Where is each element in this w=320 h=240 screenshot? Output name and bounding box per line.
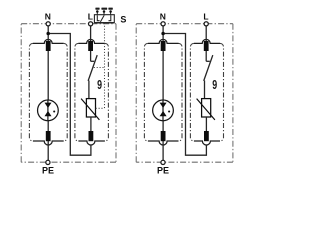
wire L down into varistor branch: [90, 26, 92, 61]
node junction dot on N: [46, 32, 50, 36]
signalling terminal pin 2 stub: [103, 12, 105, 15]
thermal disconnector blade right module: [204, 55, 213, 81]
varistor branch sub-box left side: [75, 43, 79, 141]
varistor branch separation line bottom with plug bump: [78, 141, 105, 145]
terminal PE right module: [161, 160, 165, 164]
signalling contact NO leg: [109, 15, 111, 21]
varistor branch sub-box right side: [105, 43, 109, 141]
linkage dotted vertical signalling to thermal element: [104, 23, 106, 108]
signalling terminal pin 1 dot: [96, 10, 99, 13]
spark gap gas-filled indicator dot: [53, 110, 55, 112]
outer enclosure box right module: top edge: [136, 23, 233, 25]
outer enclosure box left module: top edge: [21, 23, 116, 25]
wire junction N to varistor bottom link right module: [164, 34, 207, 156]
svg-text:N: N: [45, 12, 51, 22]
wire varistor to bottom contact right module: [205, 117, 207, 132]
signalling terminal pin 2 dot: [103, 10, 106, 13]
svg-text:N: N: [160, 12, 166, 22]
svg-text:9: 9: [212, 78, 217, 92]
spark gap F1 circle: [38, 100, 59, 121]
plug-in contact blade top of varistor branch: [88, 41, 93, 51]
spark gap upper electrode triangle right module: [160, 103, 167, 108]
pin label NC: [95, 8, 99, 10]
svg-text:L: L: [203, 12, 208, 22]
signalling terminal pin 3 dot: [109, 10, 112, 13]
signalling terminal pin 1 stub: [96, 12, 98, 15]
plug-in contact blade bottom of spark gap branch: [46, 131, 51, 141]
spark-gap branch sub-box right side right module: [179, 43, 183, 141]
outer enclosure box right module: bottom edge: [136, 161, 233, 163]
spark gap wire through circle right module: [162, 100, 164, 121]
fixed contact tick of thermal disconnector: [91, 60, 95, 62]
spark-gap branch sub-box left side (dash-dot verticals): [29, 43, 33, 141]
wire varistor to bottom contact: [90, 117, 92, 132]
spark-gap separation line top right module: [148, 39, 179, 43]
linkage dotted horizontal to blade: [94, 67, 105, 69]
svg-text:S: S: [120, 15, 126, 25]
varistor MOV1 diagonal stroke: [81, 99, 99, 120]
spark-gap branch sub-box right side: [64, 43, 67, 141]
wire N down through spark gap to PE right module: [162, 26, 164, 160]
pin label COM: [101, 8, 107, 10]
thermal disconnect temperature label theta right: [212, 78, 217, 92]
spark gap upper electrode triangle: [45, 103, 52, 108]
wire N down through spark gap to PE: [47, 26, 49, 160]
svg-text:PE: PE: [42, 166, 54, 176]
linkage dotted horizontal to varistor: [96, 107, 105, 109]
spark gap wire through circle: [47, 100, 49, 121]
varistor separation line top right module: [194, 39, 220, 43]
plug-in contact bottom varistor right module: [204, 131, 209, 141]
signalling box bottom heavier edge: [94, 22, 114, 24]
svg-text:PE: PE: [157, 166, 169, 176]
varistor branch separation line top with plug bump: [78, 39, 105, 43]
terminal N left module: [46, 22, 50, 26]
svg-text:9: 9: [97, 78, 102, 92]
spark gap indicator dot right module: [168, 110, 170, 112]
spark gap lower electrode triangle: [45, 111, 52, 116]
plug-in contact bottom spark gap right module: [161, 131, 166, 141]
varistor MOV2 diagonal stroke: [197, 99, 215, 120]
outer enclosure box left module: left edge: [20, 24, 22, 163]
signalling terminal pin 3 stub: [110, 12, 112, 15]
signalling contact NC leg: [97, 15, 99, 21]
varistor branch sub-box right side right module: [220, 43, 224, 141]
terminal L left module: [89, 22, 93, 26]
outer enclosure box right module: left edge: [135, 24, 137, 163]
terminal L right module: [204, 22, 208, 26]
remote signalling contact box S: [94, 15, 114, 23]
node junction dot on N right module: [161, 32, 165, 36]
svg-text:L: L: [88, 12, 93, 22]
signalling contact switch blade: [100, 15, 104, 22]
spark gap lower electrode triangle right module: [160, 111, 167, 116]
outer enclosure box left module: bottom edge: [21, 161, 116, 163]
wire junction N to varistor bottom link: [49, 34, 91, 156]
plug-in contact blade bottom of varistor branch: [89, 131, 94, 141]
wire blade to varistor: [88, 81, 90, 99]
spark-gap branch sub-box left side right module: [144, 43, 148, 141]
plug-in contact top varistor right module: [204, 41, 209, 51]
outer enclosure box left module: right edge: [115, 24, 117, 163]
thermal disconnect temperature label theta left: [97, 78, 102, 92]
varistor MOV2 body: [202, 99, 211, 117]
fixed contact tick right module: [206, 60, 210, 62]
thermal disconnector blade (open): [88, 55, 97, 81]
outer enclosure box right module: right edge: [232, 24, 234, 163]
plug-in contact blade top of spark gap branch: [46, 41, 51, 51]
spark gap F2 circle right module: [153, 100, 174, 121]
varistor separation line bottom right module: [194, 141, 220, 145]
spark-gap branch separation line top with plug bump: [33, 39, 64, 43]
spark-gap separation line bottom right module: [148, 141, 179, 145]
spark-gap branch separation line bottom with plug bump: [33, 141, 64, 145]
varistor branch sub-box left side right module: [190, 43, 194, 141]
terminal PE left module: [46, 160, 50, 164]
plug-in contact top spark gap right module: [161, 41, 166, 51]
terminal N right module: [161, 22, 165, 26]
wire L down into varistor branch right module: [205, 26, 207, 61]
wire blade to varistor right module: [204, 81, 206, 99]
pin label NO: [108, 8, 112, 10]
varistor MOV1 body: [86, 99, 95, 117]
